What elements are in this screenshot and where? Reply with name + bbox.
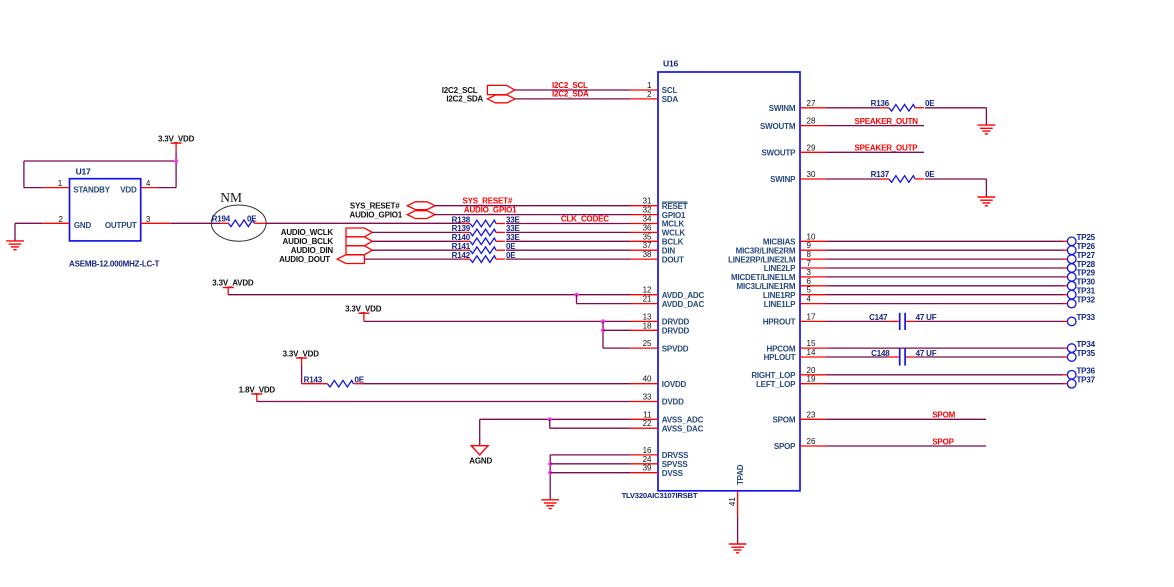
svg-text:SWOUTM: SWOUTM bbox=[760, 122, 796, 131]
svg-text:3.3V_VDD: 3.3V_VDD bbox=[158, 135, 195, 144]
svg-text:HPCOM: HPCOM bbox=[767, 344, 796, 353]
svg-text:TP26: TP26 bbox=[1077, 242, 1096, 251]
svg-text:R136: R136 bbox=[871, 99, 890, 108]
svg-text:MIC3L/LINE1RM: MIC3L/LINE1RM bbox=[737, 282, 796, 291]
svg-text:1.8V_VDD: 1.8V_VDD bbox=[239, 385, 276, 394]
svg-text:3.3V_AVDD: 3.3V_AVDD bbox=[212, 279, 254, 288]
svg-text:HPROUT: HPROUT bbox=[763, 318, 796, 327]
svg-text:18: 18 bbox=[643, 321, 652, 330]
svg-text:I2C2_SCL: I2C2_SCL bbox=[552, 81, 588, 90]
svg-text:MICDET/LINE1LM: MICDET/LINE1LM bbox=[731, 273, 796, 282]
svg-text:DRVSS: DRVSS bbox=[662, 451, 689, 460]
svg-text:SPOM: SPOM bbox=[773, 416, 796, 425]
svg-text:TP25: TP25 bbox=[1077, 233, 1096, 242]
svg-text:GND: GND bbox=[74, 221, 92, 230]
svg-text:GPIO1: GPIO1 bbox=[662, 211, 686, 220]
svg-text:SWOUTP: SWOUTP bbox=[761, 149, 796, 158]
svg-text:15: 15 bbox=[807, 339, 816, 348]
svg-text:C148: C148 bbox=[871, 349, 890, 358]
svg-text:4: 4 bbox=[807, 295, 812, 304]
svg-text:AUDIO_DIN: AUDIO_DIN bbox=[291, 246, 334, 255]
svg-text:DRVDD: DRVDD bbox=[662, 327, 690, 336]
svg-text:VDD: VDD bbox=[120, 185, 137, 194]
svg-text:14: 14 bbox=[807, 348, 816, 357]
svg-text:AGND: AGND bbox=[469, 456, 492, 465]
svg-text:6: 6 bbox=[807, 277, 812, 286]
svg-text:SWINM: SWINM bbox=[769, 104, 796, 113]
svg-text:33: 33 bbox=[643, 393, 652, 402]
svg-text:RIGHT_LOP: RIGHT_LOP bbox=[751, 371, 796, 380]
svg-text:DIN: DIN bbox=[662, 246, 676, 255]
svg-text:MIC3R/LINE2RM: MIC3R/LINE2RM bbox=[736, 246, 796, 255]
svg-text:SPOP: SPOP bbox=[932, 437, 954, 446]
svg-text:AUDIO_DOUT: AUDIO_DOUT bbox=[279, 255, 330, 264]
svg-text:DRVDD: DRVDD bbox=[662, 318, 690, 327]
svg-text:29: 29 bbox=[807, 143, 816, 152]
svg-text:4: 4 bbox=[146, 179, 151, 188]
svg-text:2: 2 bbox=[647, 90, 652, 99]
svg-text:C147: C147 bbox=[869, 313, 888, 322]
svg-text:35: 35 bbox=[643, 232, 652, 241]
svg-text:SPVSS: SPVSS bbox=[662, 460, 689, 469]
svg-text:RESET: RESET bbox=[662, 202, 688, 211]
svg-text:ASEMB-12.000MHZ-LC-T: ASEMB-12.000MHZ-LC-T bbox=[69, 260, 160, 269]
svg-text:TP27: TP27 bbox=[1077, 251, 1096, 260]
svg-text:24: 24 bbox=[643, 455, 652, 464]
svg-text:0E: 0E bbox=[925, 170, 935, 179]
svg-text:AUDIO_BCLK: AUDIO_BCLK bbox=[283, 237, 334, 246]
svg-text:I2C2_SDA: I2C2_SDA bbox=[446, 95, 483, 104]
svg-text:34: 34 bbox=[643, 215, 652, 224]
svg-text:OUTPUT: OUTPUT bbox=[105, 221, 137, 230]
svg-text:U16: U16 bbox=[663, 59, 678, 69]
svg-text:TP31: TP31 bbox=[1077, 287, 1096, 296]
svg-text:0E: 0E bbox=[355, 376, 365, 385]
svg-text:WCLK: WCLK bbox=[662, 229, 686, 238]
svg-text:23: 23 bbox=[807, 410, 816, 419]
svg-text:0E: 0E bbox=[925, 99, 935, 108]
svg-text:3.3V_VDD: 3.3V_VDD bbox=[345, 305, 382, 314]
svg-text:AVDD_ADC: AVDD_ADC bbox=[662, 291, 705, 300]
svg-text:DOUT: DOUT bbox=[662, 255, 684, 264]
svg-text:SPOP: SPOP bbox=[774, 442, 796, 451]
svg-text:31: 31 bbox=[643, 197, 652, 206]
svg-text:5: 5 bbox=[807, 286, 812, 295]
svg-text:40: 40 bbox=[643, 375, 652, 384]
svg-text:12: 12 bbox=[643, 286, 652, 295]
svg-text:LINE2LP: LINE2LP bbox=[764, 264, 796, 273]
svg-text:TP29: TP29 bbox=[1077, 269, 1096, 278]
svg-text:AVDD_DAC: AVDD_DAC bbox=[662, 300, 705, 309]
svg-text:TP34: TP34 bbox=[1077, 340, 1096, 349]
svg-text:TP33: TP33 bbox=[1077, 313, 1096, 322]
svg-text:TPAD: TPAD bbox=[736, 464, 745, 485]
svg-text:TP30: TP30 bbox=[1077, 278, 1096, 287]
svg-text:SPEAKER_OUTN: SPEAKER_OUTN bbox=[855, 117, 919, 126]
svg-text:MICBIAS: MICBIAS bbox=[763, 238, 796, 247]
svg-text:25: 25 bbox=[643, 339, 652, 348]
svg-text:27: 27 bbox=[807, 99, 816, 108]
svg-text:R194: R194 bbox=[212, 214, 231, 223]
svg-text:HPLOUT: HPLOUT bbox=[764, 353, 796, 362]
svg-text:21: 21 bbox=[643, 295, 652, 304]
svg-text:SWINP: SWINP bbox=[770, 175, 796, 184]
svg-text:SYS_RESET#: SYS_RESET# bbox=[463, 197, 513, 206]
svg-text:SPVDD: SPVDD bbox=[662, 344, 689, 353]
svg-text:LEFT_LOP: LEFT_LOP bbox=[756, 380, 796, 389]
svg-text:22: 22 bbox=[643, 419, 652, 428]
svg-text:20: 20 bbox=[807, 366, 816, 375]
svg-text:TLV320AIC3107IRSBT: TLV320AIC3107IRSBT bbox=[622, 491, 698, 500]
svg-text:AUDIO_WCLK: AUDIO_WCLK bbox=[281, 228, 334, 237]
svg-text:BCLK: BCLK bbox=[662, 238, 684, 247]
svg-text:3: 3 bbox=[807, 268, 812, 277]
svg-text:R139: R139 bbox=[452, 224, 471, 233]
svg-text:11: 11 bbox=[643, 410, 652, 419]
svg-text:7: 7 bbox=[807, 259, 812, 268]
svg-text:DVSS: DVSS bbox=[662, 469, 684, 478]
svg-text:R142: R142 bbox=[452, 251, 471, 260]
svg-text:U17: U17 bbox=[76, 167, 91, 177]
svg-text:26: 26 bbox=[807, 437, 816, 446]
svg-text:I2C2_SCL: I2C2_SCL bbox=[442, 86, 478, 95]
svg-text:TP35: TP35 bbox=[1077, 349, 1096, 358]
svg-text:38: 38 bbox=[643, 250, 652, 259]
svg-text:MCLK: MCLK bbox=[662, 220, 685, 229]
svg-text:2: 2 bbox=[58, 215, 63, 224]
svg-text:1: 1 bbox=[58, 179, 63, 188]
svg-text:R137: R137 bbox=[871, 170, 890, 179]
svg-text:R141: R141 bbox=[452, 242, 471, 251]
svg-text:13: 13 bbox=[643, 312, 652, 321]
svg-text:17: 17 bbox=[807, 312, 816, 321]
svg-text:TP37: TP37 bbox=[1077, 376, 1096, 385]
svg-text:3.3V_VDD: 3.3V_VDD bbox=[283, 349, 320, 358]
svg-text:36: 36 bbox=[643, 223, 652, 232]
svg-text:I2C2_SDA: I2C2_SDA bbox=[552, 90, 589, 99]
svg-text:NM: NM bbox=[220, 190, 242, 205]
svg-text:3: 3 bbox=[146, 215, 151, 224]
svg-text:39: 39 bbox=[643, 464, 652, 473]
svg-text:CLK_CODEC: CLK_CODEC bbox=[561, 214, 609, 223]
svg-text:32: 32 bbox=[643, 206, 652, 215]
svg-text:10: 10 bbox=[807, 232, 816, 241]
svg-text:SCL: SCL bbox=[662, 86, 678, 95]
svg-text:28: 28 bbox=[807, 117, 816, 126]
svg-text:30: 30 bbox=[807, 170, 816, 179]
svg-text:9: 9 bbox=[807, 241, 812, 250]
svg-text:R138: R138 bbox=[452, 215, 471, 224]
svg-text:41: 41 bbox=[728, 497, 737, 506]
svg-text:AVSS_ADC: AVSS_ADC bbox=[662, 416, 704, 425]
svg-text:SPOM: SPOM bbox=[932, 411, 955, 420]
svg-text:19: 19 bbox=[807, 375, 816, 384]
svg-text:TP28: TP28 bbox=[1077, 260, 1096, 269]
svg-text:TP36: TP36 bbox=[1077, 367, 1096, 376]
svg-text:STANDBY: STANDBY bbox=[73, 185, 111, 194]
svg-text:SDA: SDA bbox=[662, 95, 679, 104]
svg-text:AVSS_DAC: AVSS_DAC bbox=[662, 424, 704, 433]
svg-text:R140: R140 bbox=[452, 233, 471, 242]
svg-text:8: 8 bbox=[807, 250, 812, 259]
svg-text:0E: 0E bbox=[247, 214, 257, 223]
svg-text:LINE1RP: LINE1RP bbox=[763, 291, 796, 300]
svg-text:AUDIO_GPIO1: AUDIO_GPIO1 bbox=[350, 210, 403, 219]
svg-text:SYS_RESET#: SYS_RESET# bbox=[350, 202, 400, 211]
svg-text:LINE2RP/LINE2LM: LINE2RP/LINE2LM bbox=[728, 255, 796, 264]
svg-text:SPEAKER_OUTP: SPEAKER_OUTP bbox=[855, 144, 919, 153]
svg-text:37: 37 bbox=[643, 241, 652, 250]
svg-text:16: 16 bbox=[643, 446, 652, 455]
svg-text:R143: R143 bbox=[304, 376, 323, 385]
svg-text:AUDIO_GPIO1: AUDIO_GPIO1 bbox=[464, 205, 517, 214]
svg-text:1: 1 bbox=[647, 81, 652, 90]
svg-text:DVDD: DVDD bbox=[662, 398, 684, 407]
svg-text:TP32: TP32 bbox=[1077, 295, 1096, 304]
svg-text:IOVDD: IOVDD bbox=[662, 380, 687, 389]
svg-text:LINE1LP: LINE1LP bbox=[764, 300, 796, 309]
